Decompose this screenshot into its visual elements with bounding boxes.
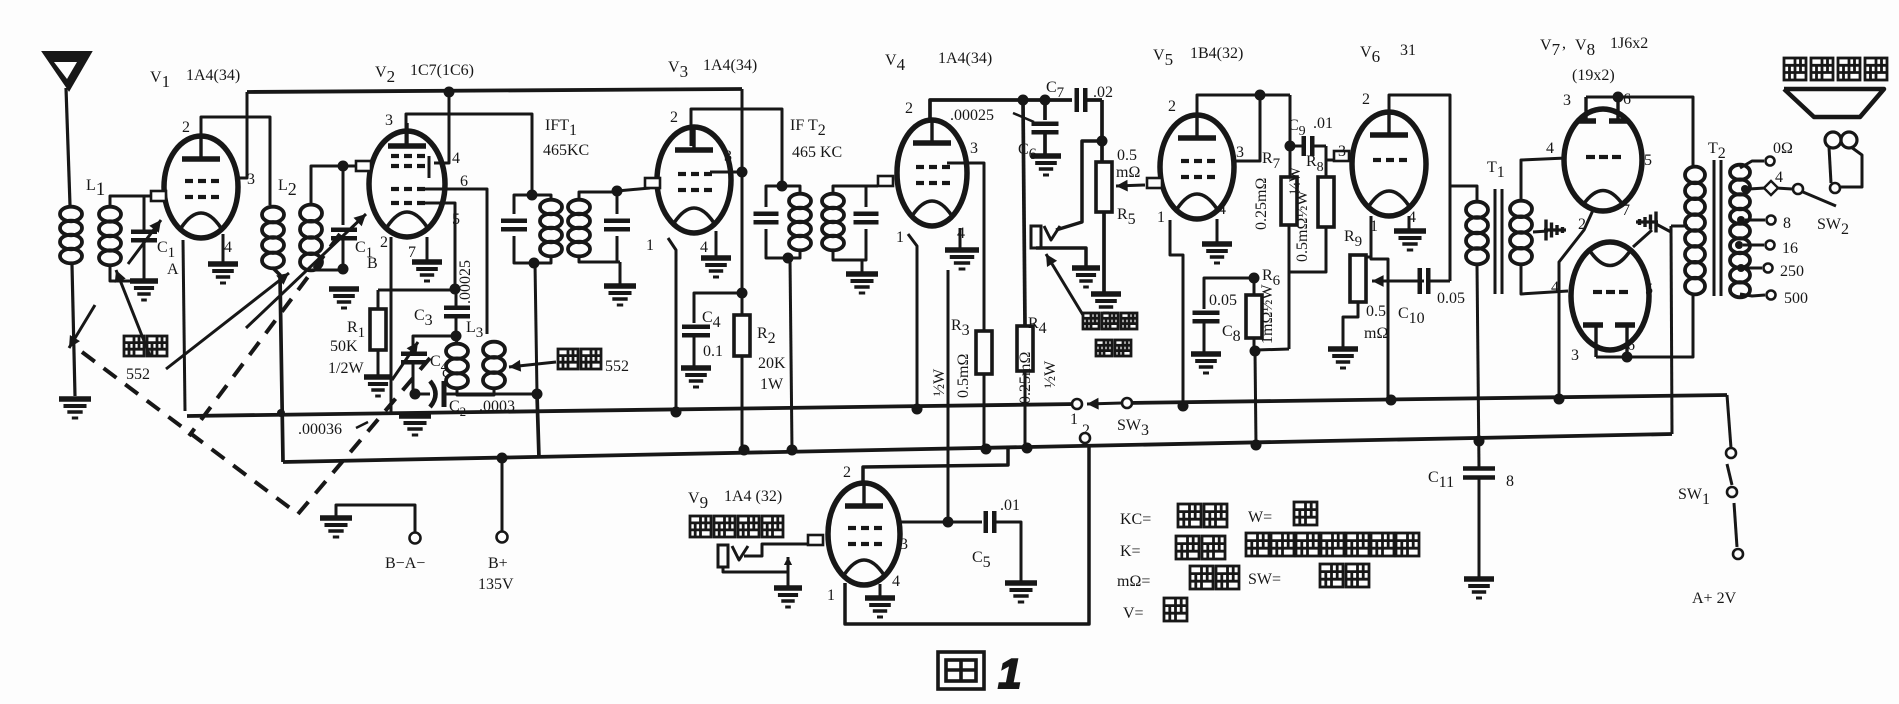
tap 16	[1735, 241, 1743, 249]
svg-text:7: 7	[1622, 202, 1630, 219]
junction dot V9 plate node	[943, 517, 954, 528]
dashed gang line C to C4c	[298, 358, 430, 514]
junction dot IFT2 primary bottom	[783, 253, 794, 264]
resistor R3	[976, 331, 992, 374]
tap 4 with SW2	[1741, 185, 1749, 193]
svg-text:0Ω: 0Ω	[1773, 140, 1793, 157]
ground under C11	[1464, 576, 1494, 582]
svg-text:SW=: SW=	[1248, 571, 1281, 588]
capacitor C6	[1043, 100, 1047, 120]
junction dot C3 bottom node	[451, 331, 462, 342]
svg-text:0.5mΩ½W: 0.5mΩ½W	[1294, 190, 1311, 262]
tap 250	[1737, 264, 1745, 272]
ground under C2	[399, 413, 431, 419]
svg-text:.01: .01	[1000, 497, 1020, 514]
svg-text:4: 4	[224, 239, 232, 256]
svg-text:552: 552	[605, 358, 629, 375]
IF transformer IFT2 primary loop	[766, 186, 782, 207]
svg-text:K=: K=	[1120, 543, 1141, 560]
wire V9 pin4 ground	[879, 584, 882, 596]
wire V3 pin3 screen to bus vertical	[710, 171, 742, 174]
svg-text:5: 5	[1644, 152, 1652, 169]
SW3 arrow	[1087, 403, 1122, 404]
junction dot IFT1 secondary top	[612, 186, 623, 197]
svg-text:5: 5	[1645, 281, 1653, 298]
junction dot C9 node	[1285, 141, 1296, 152]
pickup jack 拾音器插口	[1031, 226, 1041, 248]
svg-text:.00036: .00036	[298, 421, 342, 438]
svg-text:0.05: 0.05	[1209, 292, 1237, 309]
ground under C4	[681, 365, 711, 371]
wire V9 plate node vertical	[947, 270, 950, 522]
oscillator coil L3 winding B	[483, 342, 505, 358]
wire V5 pin3 screen	[1234, 95, 1260, 161]
wire L1 secondary bottom to ground	[110, 265, 136, 281]
coil L2 secondary winding	[300, 205, 322, 222]
label 美通 552 tuning gang	[124, 336, 144, 356]
svg-text:0.25mΩ: 0.25mΩ	[1253, 178, 1270, 230]
ground under V4 pin4	[945, 247, 979, 253]
junction dot C1B ground node	[338, 264, 349, 275]
svg-text:.00025: .00025	[950, 107, 994, 124]
junction dot V7 filament on A bus	[1554, 394, 1565, 405]
junction dot R4 on B+ bus	[1022, 443, 1033, 454]
switch SW1	[1727, 395, 1731, 448]
svg-text:1mΩ½W: 1mΩ½W	[1259, 284, 1276, 344]
junction dot pickup node	[1097, 136, 1108, 147]
T2 core	[1713, 160, 1716, 296]
resistor R9	[1358, 256, 1371, 259]
label 話筒插口 microphone jack	[690, 516, 711, 537]
svg-text:135V: 135V	[478, 576, 514, 593]
wire V5 pin2 plate	[1197, 95, 1290, 117]
IFT1 secondary loop	[579, 192, 617, 200]
coil L1 secondary winding	[99, 207, 121, 222]
svg-text:4: 4	[452, 150, 460, 167]
T2 center tap B+ riser	[1671, 225, 1688, 228]
wire V9 pin3 to C5	[900, 521, 982, 524]
junction dot line1-IFT1	[532, 389, 543, 400]
tube V9 microphone amplifier	[828, 483, 900, 585]
wire L3 bottoms to node	[457, 388, 494, 395]
wire pickup jack tip to R5 node	[1056, 141, 1102, 230]
svg-text:W=: W=	[1248, 509, 1272, 526]
label 插口	[1096, 340, 1112, 356]
wire V5 pin1 filament to A bus	[1170, 220, 1183, 406]
resistor R5 volume control	[1096, 162, 1112, 212]
wire T1 primary bottom to C11 and B+ bus	[1477, 264, 1479, 468]
wire V2 pin4 screen to top bus	[434, 92, 449, 163]
wire mic jack sleeve to ground	[787, 557, 790, 586]
junction dot V5 filament on A bus	[1178, 401, 1189, 412]
label Meitong 552 near L3	[558, 349, 578, 369]
tube V1 triode	[164, 136, 238, 238]
wire C2 node to IFT1 bottom junction	[455, 393, 537, 396]
svg-text:B: B	[367, 255, 378, 272]
svg-text:465 KC: 465 KC	[792, 144, 842, 161]
svg-text:mΩ=: mΩ=	[1117, 573, 1150, 590]
capacitor C10	[1418, 268, 1423, 294]
filament comb symbol near pin2	[1544, 228, 1566, 231]
capacitor C5	[984, 511, 989, 533]
junction dot V5 screen-plate wire	[1255, 90, 1266, 101]
speaker horn	[1784, 89, 1884, 117]
dashed gang line A	[82, 352, 298, 514]
variable capacitor C1B	[342, 166, 345, 225]
junction dot C2 node	[410, 389, 421, 400]
wire IFT1 secondary bottom to ground	[619, 262, 622, 284]
wire R8 top to V6 grid	[1326, 159, 1352, 162]
tube V8 output inverted	[1571, 242, 1649, 350]
svg-text:1C7(1C6): 1C7(1C6)	[410, 62, 474, 79]
junction dot V7 plates	[1613, 92, 1624, 103]
junction dot at 742,293	[737, 288, 748, 299]
svg-text:20K: 20K	[758, 355, 786, 372]
svg-text:1: 1	[998, 650, 1021, 697]
variable capacitor C1A	[131, 230, 157, 235]
svg-text:4: 4	[1775, 169, 1783, 186]
svg-text:(19x2): (19x2)	[1572, 67, 1615, 84]
ground under R1	[364, 374, 392, 380]
svg-text:.02: .02	[1093, 84, 1113, 101]
V7 pin2 filament wire to A bus	[1559, 208, 1594, 399]
svg-text:2: 2	[1168, 98, 1176, 115]
wire SW3 to V9 cathode return	[845, 445, 1089, 624]
svg-text:4: 4	[1546, 140, 1554, 157]
arrow on antenna lead	[69, 305, 95, 348]
svg-text:1/2W: 1/2W	[328, 360, 364, 377]
svg-text:A+ 2V: A+ 2V	[1692, 590, 1737, 607]
svg-text:2: 2	[1362, 91, 1370, 108]
svg-text:,: ,	[1562, 35, 1566, 52]
antenna lead-in wire	[66, 88, 70, 205]
svg-text:0.5mΩ: 0.5mΩ	[955, 354, 972, 398]
SW3 contact right	[1122, 398, 1132, 408]
capacitor C8	[1204, 278, 1254, 309]
junction dot C6 top	[1040, 95, 1051, 106]
ground under R5	[1091, 291, 1121, 297]
SW3 lower contact	[1080, 433, 1090, 443]
svg-text:50K: 50K	[330, 338, 358, 355]
svg-text:V=: V=	[1123, 605, 1144, 622]
capacitor C4	[694, 293, 742, 323]
ground under IFT1 secondary	[604, 283, 636, 289]
wire T1 secondary top to V7 grid	[1521, 158, 1566, 201]
filter capacitor C11	[1463, 466, 1495, 471]
ground under V3 pin4	[701, 255, 731, 261]
ground under C1B	[329, 286, 359, 292]
junction dot V3 filament on A bus	[671, 407, 682, 418]
wire IFT2 secondary bottom to ground	[861, 260, 864, 272]
svg-text:mΩ: mΩ	[1364, 325, 1388, 342]
svg-text:3: 3	[724, 148, 732, 165]
wire IFT1 secondary to V3 grid	[617, 188, 650, 191]
svg-text:6: 6	[460, 173, 468, 190]
tap 8	[1737, 216, 1745, 224]
junction dot R4 top	[1018, 95, 1029, 106]
junction dot IFT1 primary top	[527, 190, 538, 201]
arrow from pickup label to jack	[1046, 254, 1083, 315]
svg-text:4: 4	[700, 239, 708, 256]
svg-text:1A4(34): 1A4(34)	[186, 67, 240, 84]
wire V6 pin4 ground	[1408, 216, 1411, 229]
wire pickup jack sleeve to ground	[1036, 248, 1086, 266]
svg-text:.01: .01	[1313, 115, 1333, 132]
svg-text:2: 2	[905, 100, 913, 117]
svg-text:3: 3	[385, 112, 393, 129]
ground under V1 pin4	[208, 261, 238, 267]
junction dot R6 top	[1249, 273, 1260, 284]
tube V7 output	[1564, 109, 1642, 211]
wire V6 pin2 plate to T1	[1389, 95, 1450, 281]
svg-text:6: 6	[1623, 91, 1631, 108]
svg-text:0.1: 0.1	[703, 343, 723, 360]
SW2 open arm	[1803, 192, 1836, 206]
wire IFT1 primary bottom to B+ bus	[535, 263, 537, 394]
wire L2 bottom to B+ bus line	[273, 268, 283, 462]
svg-text:7: 7	[408, 244, 416, 261]
junction dot V8 plates	[1622, 352, 1633, 363]
svg-text:8: 8	[1506, 473, 1514, 490]
svg-text:3: 3	[1563, 92, 1571, 109]
V8 plate wires to T2	[1594, 325, 1597, 357]
resistor R7	[1289, 146, 1292, 177]
wire V4 pin1 filament to A bus	[908, 234, 917, 409]
T1 center tap to filament comb	[1533, 231, 1548, 232]
transformer T1 primary	[1466, 202, 1488, 218]
resistor R2	[741, 293, 744, 315]
wire V3 pin2 plate to IFT2 primary	[691, 109, 782, 186]
wiper arrow R5 from V5 grid	[1116, 185, 1145, 186]
wire L2 secondary top to V2 grid	[311, 166, 356, 205]
tube V3 IF amplifier	[657, 127, 731, 233]
A+ filament bus line2	[187, 404, 1077, 416]
svg-text:½W: ½W	[1042, 360, 1059, 388]
coil L2 primary winding	[262, 207, 284, 223]
svg-text:A: A	[167, 261, 179, 278]
IF transformer IFT1 primary loop	[514, 195, 532, 214]
svg-text:31: 31	[1400, 42, 1416, 59]
svg-text:0.25mΩ: 0.25mΩ	[1017, 352, 1034, 404]
wire V5 pin4 ground	[1216, 219, 1219, 242]
wire V2 pin7 to ground	[426, 237, 429, 260]
wire V2 pin1 filament down to A bus	[390, 237, 393, 413]
tap 500	[1740, 294, 1765, 296]
svg-text:0.5: 0.5	[1117, 147, 1137, 164]
arrow to L1	[116, 270, 150, 356]
tube V2 pentagrid converter	[369, 131, 445, 237]
wire L1 secondary top to V1 grid	[110, 196, 151, 207]
svg-text:465KC: 465KC	[543, 142, 589, 159]
wire V1 pin2 grid cap to L2	[201, 117, 270, 205]
ground under mic jack	[774, 585, 802, 591]
svg-text:2: 2	[843, 464, 851, 481]
svg-text:500: 500	[1784, 290, 1808, 307]
junction dot IFT2 primary top	[777, 181, 788, 192]
ground under V6 pin4	[1394, 228, 1426, 234]
wire V3 pin4 to ground	[715, 231, 718, 256]
svg-text:552: 552	[126, 366, 150, 383]
resistor R6	[1253, 278, 1256, 295]
wire V3 pin1 filament to A bus	[668, 238, 676, 412]
wire V1 pin3 plate to top bus	[238, 92, 247, 178]
T1 core	[1494, 189, 1497, 294]
ground under R9	[1328, 346, 1358, 352]
B+ bus line3	[283, 434, 1672, 462]
tube V6 audio driver	[1352, 112, 1426, 216]
padder capacitor C4c	[401, 352, 427, 357]
antenna	[43, 52, 91, 90]
capacitor C2 fixed	[415, 393, 430, 396]
svg-text:1: 1	[1070, 411, 1078, 428]
wire V4 pin3 to R3	[947, 163, 984, 331]
wire C3 to padder C4c	[413, 336, 456, 350]
svg-text:1: 1	[896, 229, 904, 246]
ground under C8	[1191, 351, 1221, 357]
junction dot top bus at V2	[444, 87, 455, 98]
resistor R1	[370, 309, 386, 350]
svg-text:mΩ: mΩ	[1116, 164, 1140, 181]
speaker coil	[1825, 132, 1841, 148]
wire V4 pin2 plate to C6 C7 node	[930, 100, 1072, 122]
svg-text:4: 4	[1218, 201, 1226, 218]
wire IFT2 secondary to V4 grid	[862, 185, 878, 188]
wire IFT2 primary bottom to B+ bus	[790, 258, 792, 450]
label 拾音器	[1083, 313, 1099, 329]
svg-text:1W: 1W	[760, 376, 784, 393]
ground under V2 pin7	[412, 259, 442, 265]
svg-text:3: 3	[970, 140, 978, 157]
ground near pickup jack	[1072, 265, 1100, 271]
oscillator coil L3 winding A	[456, 336, 457, 345]
svg-text:1B4(32): 1B4(32)	[1190, 45, 1243, 62]
svg-text:2: 2	[670, 109, 678, 126]
svg-text:16: 16	[1782, 240, 1798, 257]
svg-text:3: 3	[900, 536, 908, 553]
capacitor C3	[444, 306, 470, 311]
antenna ground	[59, 396, 91, 402]
coupling capacitor C9	[1290, 95, 1302, 146]
caption 圖 1	[938, 652, 984, 689]
transformer T1 secondary	[1510, 201, 1532, 217]
V7 plate wires to T2	[1584, 97, 1587, 121]
junction dot L2-C1B node	[338, 161, 349, 172]
top B+ bus wire	[247, 89, 742, 92]
junction dot V4 filament on A bus	[912, 404, 923, 415]
wire V4 pin4 to ground	[959, 228, 962, 248]
SW3 contact left	[1072, 399, 1082, 409]
transformer T2 primary	[1685, 167, 1705, 184]
svg-text:KC=: KC=	[1120, 511, 1151, 528]
wire C7 to R5	[1100, 100, 1104, 162]
tube V5 first audio	[1160, 115, 1234, 219]
svg-text:0.5: 0.5	[1366, 303, 1386, 320]
label 监听喇叭 speaker	[1784, 58, 1806, 80]
svg-text:1: 1	[646, 237, 654, 254]
svg-text:1A4 (32): 1A4 (32)	[724, 488, 782, 505]
junction dot at 742,172	[737, 167, 748, 178]
branch to T1 primary top	[1450, 186, 1477, 202]
ground under C1A	[130, 278, 158, 284]
coil L1 primary winding	[60, 207, 82, 222]
svg-text:1J6x2: 1J6x2	[1610, 35, 1648, 52]
svg-text:1: 1	[827, 587, 835, 604]
wire V2 pin6 to oscillator coil L3	[419, 189, 487, 334]
wire R6 bottom to B+ bus	[1255, 351, 1256, 445]
B plus terminal	[501, 458, 504, 531]
microphone jack symbol	[718, 545, 728, 567]
vertical screen feed wire x742	[741, 89, 744, 293]
wire V1 pin1 filament down to A bus	[183, 240, 185, 411]
svg-text:250: 250	[1780, 263, 1804, 280]
capacitor C7	[1075, 88, 1080, 112]
junction dot R3 on B+ bus	[981, 444, 992, 455]
svg-text:2: 2	[182, 119, 190, 136]
svg-text:½W: ½W	[931, 368, 948, 396]
junction dot R2 on B+ bus	[739, 445, 750, 456]
svg-text:B+: B+	[488, 555, 508, 572]
speaker leads	[1829, 147, 1831, 183]
junction dot R1 C3 node	[450, 284, 461, 295]
svg-text:¼W: ¼W	[1287, 166, 1304, 194]
svg-text:1A4(34): 1A4(34)	[938, 50, 992, 67]
ground under C6	[1031, 153, 1061, 159]
arrow at mic jack	[787, 557, 790, 575]
junction dot T1 bottom on B+ bus	[1474, 436, 1485, 447]
ground at B-A-	[320, 515, 352, 521]
svg-text:B−A−: B−A−	[385, 555, 425, 572]
resistor R4	[1023, 100, 1025, 326]
svg-text:8: 8	[1783, 215, 1791, 232]
transformer T2 secondary	[1730, 165, 1750, 180]
svg-text:3: 3	[1571, 347, 1579, 364]
wire V2 pin5 to R1 C3 node	[419, 203, 455, 289]
ground under C5	[1005, 580, 1037, 586]
junction dot V6 filament on A bus	[1386, 395, 1397, 406]
junction dot IFT1 primary bottom	[529, 258, 540, 269]
tap 0 ohm	[1740, 161, 1764, 168]
wire V2 pin3 plate to IFT1 primary	[406, 114, 532, 195]
wire V9 pin2 to bus	[863, 446, 1008, 485]
wire L2 secondary bottom to C1B	[311, 269, 343, 272]
legend capacitor unit	[1246, 533, 1269, 556]
wire V6 pin1 to R9 and A bus	[1371, 216, 1388, 398]
svg-text:3: 3	[1338, 143, 1346, 160]
wire V1 pin4 to ground	[222, 234, 225, 262]
ground under V5 pin4	[1202, 241, 1232, 247]
V8 pin7 wire to center tap node	[1633, 230, 1652, 247]
arrow from 552 label to L3	[509, 362, 556, 367]
svg-text:3: 3	[1236, 144, 1244, 161]
ground under V9 pin4	[865, 595, 895, 601]
svg-text:1: 1	[1157, 209, 1165, 226]
svg-text:.00025: .00025	[457, 260, 474, 304]
ground under IFT2 secondary	[846, 271, 878, 277]
svg-text:1A4(34): 1A4(34)	[703, 57, 757, 74]
svg-text:0.05: 0.05	[1437, 290, 1465, 307]
B minus A minus terminal	[336, 505, 415, 533]
dashed gang line B from C1B	[189, 234, 340, 436]
resistor R8	[1325, 146, 1328, 177]
junction dot R6 bottom	[1250, 346, 1261, 357]
svg-text:2: 2	[380, 234, 388, 251]
wire T1 secondary bottom to V8 grid	[1521, 264, 1568, 294]
tube V4 detector	[897, 120, 967, 226]
svg-text:4: 4	[892, 573, 900, 590]
filament comb symbol near pin7	[1636, 220, 1658, 223]
junction dot R6 on B+ bus	[1251, 440, 1262, 451]
IFT2 secondary loop	[833, 186, 877, 194]
